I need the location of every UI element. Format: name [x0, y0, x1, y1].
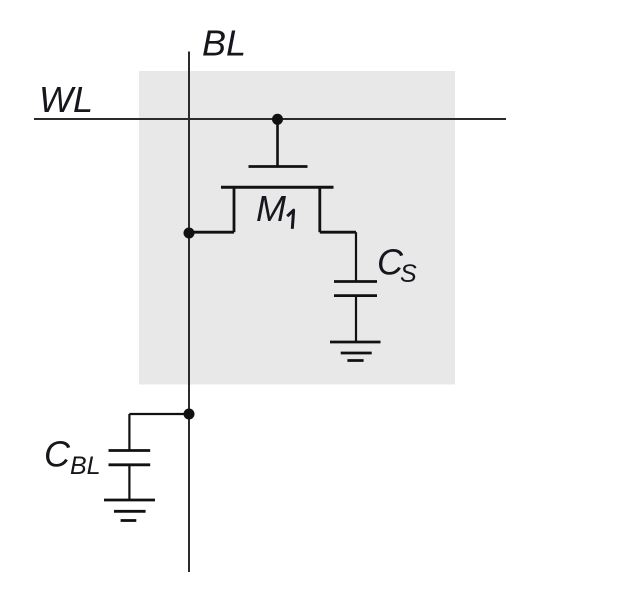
junction node: gate on WL: [272, 114, 283, 125]
label CS: [377, 241, 417, 288]
label M1: [256, 188, 294, 229]
capacitor CS: [334, 282, 377, 296]
svg-text:S: S: [400, 260, 417, 288]
svg-text:BL: BL: [202, 23, 246, 64]
bit line BL (wire): [188, 52, 190, 573]
word line WL (wire): [34, 118, 506, 120]
svg-text:BL: BL: [70, 452, 101, 480]
DRAM cell shaded box: [139, 71, 455, 385]
label WL: [39, 79, 93, 120]
wire: BL to CBL: [129, 414, 189, 451]
label BL: [202, 23, 246, 64]
wire: CS to ground: [355, 296, 357, 342]
svg-text:M: M: [256, 188, 286, 229]
transistor M1: [221, 119, 334, 232]
wire: M1 right terminal to CS: [320, 232, 356, 281]
junction node: BL / M1: [184, 228, 195, 239]
ground (CBL): [104, 500, 155, 521]
svg-text:WL: WL: [39, 79, 93, 120]
label CBL: [44, 433, 101, 480]
svg-text:C: C: [44, 433, 71, 474]
wire: M1 left terminal to BL: [189, 231, 234, 234]
wire: CBL to ground: [128, 465, 130, 500]
junction node: BL / CBL tap: [184, 409, 195, 420]
capacitor CBL: [109, 451, 151, 465]
ground (CS): [330, 342, 381, 361]
